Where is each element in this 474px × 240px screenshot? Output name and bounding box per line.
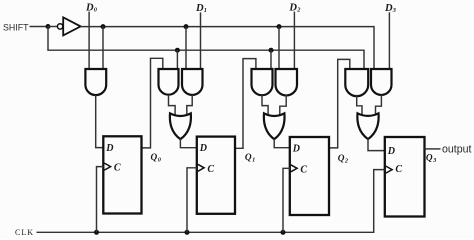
- svg-text:D: D: [199, 143, 207, 154]
- wire D1 drop to AND A3: [200, 12, 202, 69]
- wire A1 output down to FF1 D input: [96, 95, 104, 148]
- svg-text:3: 3: [432, 157, 436, 164]
- flip-flop FF2: [197, 137, 235, 214]
- svg-text:C: C: [395, 164, 402, 175]
- inverter U1 bubble: [57, 24, 62, 29]
- AND gate A3 (load D1): [182, 69, 203, 95]
- AND gate A2 (shift Q0): [159, 69, 179, 95]
- AND gate A5 (load D2): [276, 69, 298, 95]
- clock wedge FF2: [198, 164, 204, 171]
- wire net SHIFT' bus (line 1) from inverter output to stage-3 load gate: [81, 27, 374, 70]
- svg-text:SHIFT: SHIFT: [3, 22, 29, 32]
- wire line1 tap down to AND A1 right input: [102, 27, 104, 70]
- wire A5 output jog to OR O2: [280, 95, 286, 116]
- wire O1 output to FF2 D input: [180, 139, 196, 148]
- OR gate O2: [264, 113, 285, 139]
- wire SHIFT input lead: [30, 26, 49, 28]
- svg-text:D: D: [288, 3, 297, 14]
- wire A2 output jog to OR O1: [169, 95, 176, 116]
- wire A6 output jog to OR O3: [357, 95, 362, 116]
- svg-text:CLK: CLK: [15, 228, 34, 237]
- wire CLK riser to FF3 C: [283, 168, 290, 232]
- junction line2 tap stage 2: [269, 48, 274, 53]
- wire A7 output jog to OR O3: [376, 95, 382, 116]
- wire Q3 to output: [425, 148, 441, 150]
- svg-text:D: D: [105, 143, 113, 154]
- wire Q2 feedback riser to AND A6 left input: [329, 59, 350, 147]
- wire D2 drop to AND A5: [293, 12, 295, 70]
- svg-text:D: D: [387, 146, 395, 157]
- wire line2 tap down to AND A4 right input: [270, 50, 272, 69]
- svg-text:Q: Q: [151, 153, 158, 163]
- junction CLK tap FF1: [94, 230, 99, 235]
- wire Q1 feedback riser to AND A4 left input: [235, 59, 256, 149]
- svg-text:1: 1: [204, 7, 207, 14]
- wire A4 output jog to OR O2: [262, 95, 268, 116]
- flip-flop FF3: [290, 137, 329, 215]
- flip-flop FF4: [385, 137, 425, 217]
- wire O3 output to FF4 D input: [368, 139, 385, 151]
- svg-text:C: C: [207, 164, 214, 175]
- junction SHIFT branch: [46, 24, 51, 29]
- wire line1 tap down to AND A3 left input: [185, 27, 187, 70]
- clock wedge FF3: [291, 165, 297, 172]
- inverter U1: [63, 17, 80, 35]
- wire CLK bus: [37, 170, 385, 233]
- junction line1 tap stage 2: [277, 24, 282, 29]
- wire Q0 feedback riser to AND A2 left input: [142, 58, 163, 148]
- svg-text:1: 1: [252, 156, 255, 163]
- wire line2 tap down to AND A2 right input: [176, 50, 178, 69]
- wire A3 output jog to OR O1: [187, 95, 192, 116]
- svg-text:Q: Q: [426, 154, 433, 164]
- svg-text:C: C: [300, 164, 307, 175]
- AND gate A4 (shift Q1): [252, 69, 273, 95]
- svg-text:Q: Q: [245, 153, 252, 163]
- wire net SHIFT bus (line 2) from SHIFT branch down and right to stage-3 shift gate: [48, 27, 364, 70]
- OR gate O1: [170, 113, 191, 139]
- svg-text:3: 3: [392, 7, 396, 14]
- wire SHIFT to inverter bubble: [48, 26, 57, 28]
- AND gate A1 (load D0): [85, 69, 106, 95]
- flip-flop FF1: [103, 136, 141, 213]
- AND gate A7 (load D3): [371, 69, 392, 95]
- svg-text:C: C: [114, 163, 121, 174]
- wire CLK riser to FF2 C: [187, 168, 197, 233]
- wire D3 drop to AND A7: [388, 12, 390, 69]
- svg-text:D: D: [292, 144, 300, 155]
- wire line1 tap down to AND A5 left input: [278, 27, 280, 70]
- svg-text:output: output: [442, 143, 472, 155]
- svg-text:2: 2: [296, 7, 300, 14]
- AND gate A6 (shift Q2): [345, 69, 368, 96]
- clock wedge FF4: [386, 166, 392, 173]
- wire O2 output to FF3 D input: [274, 139, 290, 148]
- junction line2 tap stage 1: [175, 48, 180, 53]
- junction line1 tap stage 0: [101, 24, 106, 29]
- svg-text:Q: Q: [338, 154, 345, 164]
- junction CLK tap FF3: [281, 230, 286, 235]
- wire D0 drop to AND A1: [88, 12, 90, 70]
- svg-text:D: D: [384, 3, 393, 14]
- junction line1 tap stage 1: [184, 24, 189, 29]
- svg-text:2: 2: [344, 158, 348, 165]
- wire CLK riser to FF1 C: [97, 167, 104, 233]
- clock wedge FF1: [104, 163, 110, 170]
- junction CLK tap FF2: [185, 230, 190, 235]
- svg-text:D: D: [195, 3, 204, 14]
- OR gate O3: [357, 113, 378, 139]
